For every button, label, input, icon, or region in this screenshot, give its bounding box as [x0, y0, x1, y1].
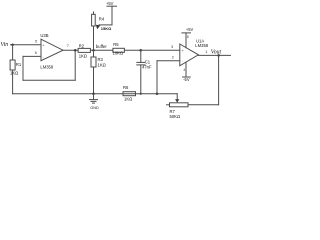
node GND junction — [92, 92, 95, 95]
wire U1A output — [198, 54, 230, 56]
svg-text:+: + — [42, 42, 45, 47]
svg-text:1KΩ: 1KΩ — [10, 71, 18, 76]
svg-text:4: 4 — [183, 68, 185, 72]
node Vout junction — [217, 54, 220, 57]
wire U1A V- stub — [185, 62, 187, 77]
power +5V bar (top) — [107, 5, 117, 7]
wire pot R7 right lead — [188, 104, 219, 106]
svg-text:R1: R1 — [16, 62, 22, 67]
svg-text:buffer: buffer — [96, 44, 108, 49]
svg-text:U3B: U3B — [40, 33, 48, 38]
resistor R1 body — [10, 60, 15, 70]
node R6/U1A junction — [156, 92, 159, 95]
wire R3 bottom lead to ground net — [93, 67, 95, 94]
svg-text:8: 8 — [187, 35, 189, 39]
wire ground net horizontal — [13, 93, 178, 95]
svg-text:LM358: LM358 — [40, 64, 53, 69]
node C1 junction — [139, 49, 142, 52]
svg-text:R3: R3 — [98, 57, 104, 62]
wire R5 to U1A +input — [124, 49, 179, 51]
capacitor C1 bottom plate — [137, 64, 145, 66]
wire Vin to U3B +input — [11, 44, 42, 46]
wire up to U1A inverting input — [156, 61, 158, 94]
wire GND stub — [93, 94, 95, 100]
svg-text:15KΩ: 15KΩ — [101, 26, 112, 31]
node U3B output junction — [74, 49, 77, 52]
potentiometer R7 body — [170, 103, 189, 107]
wire R1 top lead — [12, 45, 14, 60]
wire R4 bottom lead to buffer node — [93, 26, 95, 50]
svg-text:47nF: 47nF — [142, 64, 152, 69]
svg-text:-: - — [43, 54, 45, 59]
svg-text:10KΩ: 10KΩ — [113, 51, 124, 56]
svg-text:-: - — [182, 59, 184, 64]
wire +5V vertical — [111, 6, 113, 25]
svg-text:3: 3 — [171, 44, 173, 49]
svg-text:+: + — [182, 48, 185, 53]
capacitor C1 top plate — [137, 61, 145, 63]
wire U3B output — [63, 49, 78, 51]
svg-text:R6: R6 — [123, 85, 129, 90]
svg-text:R4: R4 — [99, 17, 105, 22]
wire R7 left stub — [167, 104, 170, 106]
ground symbol bars — [90, 99, 98, 101]
svg-text:Vout: Vout — [211, 49, 222, 55]
svg-text:Vin: Vin — [1, 42, 9, 48]
wire R4 wiper to +5V vertical — [99, 24, 112, 26]
wire feedback right vertical — [74, 50, 76, 80]
wire U1A V+ stub — [185, 33, 187, 48]
wire R2 to R5 — [90, 49, 113, 51]
resistor R3 top lead — [93, 50, 95, 57]
wiper arrow of R7 — [175, 99, 179, 102]
resistor R5 body — [113, 48, 125, 52]
svg-text:1: 1 — [205, 49, 207, 54]
svg-text:5: 5 — [35, 38, 37, 43]
svg-text:+5V: +5V — [186, 27, 194, 32]
wire Vout down vertical — [218, 55, 220, 104]
node buffer junction — [92, 49, 95, 52]
wire feedback bottom horizontal — [23, 79, 75, 81]
node C1 ground junction — [140, 93, 142, 95]
svg-text:-5V: -5V — [183, 77, 190, 82]
wire U1A inverting input — [157, 60, 180, 62]
wire wiper branch vertical — [176, 94, 178, 100]
op-amp U3B — [41, 39, 63, 61]
svg-text:7: 7 — [67, 43, 69, 48]
svg-text:50KΩ: 50KΩ — [170, 114, 181, 119]
node Vin/R1 junction — [11, 44, 14, 47]
potentiometer R4 body — [92, 14, 96, 26]
wiper arrow of R4 — [96, 25, 101, 30]
svg-text:R2: R2 — [79, 43, 85, 48]
svg-text:1KΩ: 1KΩ — [98, 62, 106, 67]
resistor R6 body — [123, 92, 136, 96]
wire R4 top stub — [93, 12, 95, 14]
op-amp U1A — [180, 44, 199, 66]
svg-text:+5V: +5V — [106, 1, 114, 6]
wire R1 bottom lead to ground net — [12, 70, 14, 94]
wire feedback left vertical — [22, 56, 24, 80]
svg-text:R5: R5 — [113, 42, 119, 47]
svg-text:6: 6 — [35, 50, 37, 55]
power -5V bar (U1A) — [183, 76, 191, 78]
svg-text:2: 2 — [172, 55, 174, 60]
wire C1 bottom lead to ground net — [140, 65, 142, 94]
wire U3B inverting input — [23, 55, 41, 57]
resistor R3 body — [91, 57, 96, 67]
resistor R2 body — [78, 48, 90, 52]
svg-text:LM358: LM358 — [195, 43, 208, 48]
svg-text:GND: GND — [90, 106, 99, 110]
power +5V bar (U1A) — [182, 32, 191, 34]
svg-text:1KΩ: 1KΩ — [124, 97, 132, 102]
wire C1 top lead — [140, 50, 142, 62]
svg-text:1KΩ: 1KΩ — [79, 53, 87, 58]
